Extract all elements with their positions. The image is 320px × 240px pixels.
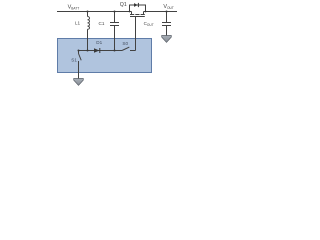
switch S1 bottom lead — [78, 61, 80, 73]
diode of Q1 body — [134, 3, 139, 7]
switch S0 blade — [122, 47, 129, 50]
inductor L1 lead — [87, 12, 89, 17]
svg-text:Q1: Q1 — [120, 2, 127, 8]
junction dots — [78, 11, 168, 52]
transistor Q1 channel stubs — [132, 12, 144, 15]
ground below COUT — [162, 36, 172, 43]
diode D1 — [94, 48, 100, 53]
wire top rail right segment — [144, 11, 178, 13]
wire S1 to ground — [78, 73, 80, 79]
svg-text:VBATT: VBATT — [68, 4, 80, 10]
wire in-box node row — [79, 50, 123, 52]
wire L1 to IC — [87, 29, 89, 50]
svg-text:VOUT: VOUT — [163, 4, 173, 10]
svg-text:L1: L1 — [75, 20, 81, 25]
svg-text:C1: C1 — [99, 21, 105, 26]
switch S1 top stub — [78, 51, 80, 54]
capacitor C1 — [114, 12, 116, 23]
capacitor COUT — [166, 12, 168, 23]
switch S1 blade — [79, 54, 82, 61]
wire top rail left segment — [57, 11, 132, 13]
ground below S1 — [74, 79, 84, 86]
inductor L1 coil — [88, 17, 90, 30]
IC block — [58, 39, 152, 73]
svg-text:COUT: COUT — [144, 21, 154, 27]
svg-text:D1: D1 — [96, 40, 102, 45]
wire Q1 gate to S0 — [135, 17, 137, 51]
transistor Q1 body-diode branch — [130, 5, 146, 12]
transistor Q1 channel bar — [130, 14, 145, 16]
svg-text:S1: S1 — [71, 58, 77, 63]
wire S0 right to gate line — [130, 50, 136, 52]
transistor Q1 gate bar — [130, 16, 145, 18]
svg-text:S0: S0 — [122, 41, 128, 46]
